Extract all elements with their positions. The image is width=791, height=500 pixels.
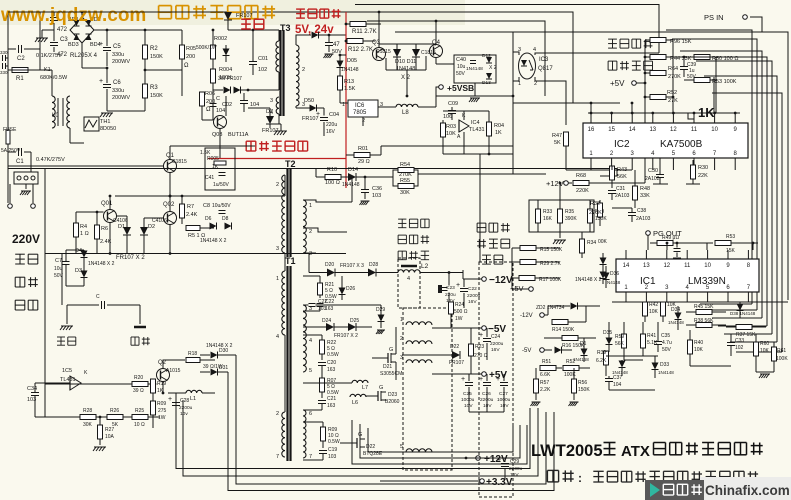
- svg-text:R7: R7: [187, 204, 194, 210]
- capacitor C22e: [460, 288, 468, 290]
- wire 1k: [688, 113, 694, 119]
- label zhiliu dianya CJK: [477, 223, 510, 232]
- choke winding 3: [406, 360, 432, 363]
- svg-text:R03: R03: [446, 124, 456, 130]
- svg-text:C31: C31: [616, 186, 625, 192]
- resistor R52b 100K: [563, 366, 579, 371]
- resistor R17 100K: [519, 276, 535, 281]
- wire R54 to right: [418, 173, 513, 175]
- wire bridge right to caps: [94, 29, 145, 31]
- terminal -5V: [482, 326, 487, 331]
- resistor R29 2.7K: [520, 260, 536, 265]
- svg-text:16: 16: [588, 127, 595, 133]
- svg-text:C40: C40: [456, 57, 466, 63]
- resistor R4 1 ohm: [74, 223, 79, 237]
- svg-text:5: 5: [309, 368, 312, 374]
- svg-text:D26: D26: [346, 286, 355, 292]
- diode D34b: [555, 347, 562, 354]
- svg-text:103: 103: [372, 193, 381, 199]
- wire IC1 bottom rail: [612, 301, 788, 303]
- resistor R39 6.2K: [604, 351, 609, 365]
- resistor R68 220K: [573, 181, 589, 186]
- svg-text:2: 2: [276, 411, 279, 417]
- svg-text:1W: 1W: [455, 316, 463, 322]
- svg-text:D14: D14: [348, 167, 358, 173]
- svg-text:+: +: [99, 78, 103, 85]
- capacitor C33 102: [727, 342, 735, 344]
- svg-text:Q817: Q817: [538, 66, 553, 72]
- svg-text:L1: L1: [190, 396, 196, 402]
- svg-text:R41: R41: [647, 333, 656, 339]
- svg-text:11: 11: [691, 127, 698, 133]
- diode D1: [123, 227, 131, 235]
- svg-text:R3: R3: [150, 85, 158, 91]
- wire r15 net: [511, 248, 513, 278]
- svg-text:Q2: Q2: [158, 360, 167, 366]
- wire rail y146: [381, 145, 513, 147]
- ground under T3: [275, 130, 287, 132]
- svg-text:R19: R19: [157, 381, 166, 387]
- wires optocoupler: [513, 52, 519, 55]
- svg-text:10K: 10K: [694, 347, 704, 353]
- svg-text:4.7u: 4.7u: [662, 340, 672, 346]
- diode secondary top: [312, 32, 319, 39]
- svg-text:R45 15K: R45 15K: [694, 304, 714, 310]
- svg-text:R20: R20: [134, 375, 143, 381]
- svg-text:16V: 16V: [326, 129, 336, 135]
- inductor L7: [352, 380, 368, 383]
- wire wrap 2: [360, 424, 520, 458]
- svg-text:R56: R56: [578, 380, 587, 386]
- svg-text:C04: C04: [329, 112, 339, 118]
- svg-text:2: 2: [309, 229, 312, 235]
- wire to bridge: [54, 11, 82, 13]
- diodes 1N4148 x2 right: [600, 258, 607, 265]
- wire +12V rail: [513, 173, 546, 175]
- svg-text:R27: R27: [105, 427, 114, 433]
- svg-text:56K: 56K: [615, 341, 625, 347]
- svg-text:33K: 33K: [640, 193, 650, 199]
- capacitor pg: [674, 248, 681, 250]
- svg-text:C22: C22: [468, 286, 477, 292]
- svg-text:R42: R42: [649, 302, 658, 308]
- transistor Q03 BUT11A: [214, 116, 227, 129]
- svg-text:C2: C2: [17, 56, 25, 62]
- svg-text:G: G: [389, 347, 393, 353]
- dashed box DC output: [479, 262, 513, 497]
- capacitor C02 104: [240, 100, 248, 102]
- resistor R58 10K: [661, 302, 666, 316]
- wire bundle 2: [183, 400, 538, 476]
- svg-text:D33: D33: [660, 362, 669, 368]
- svg-text:FR107 X 3: FR107 X 3: [340, 263, 364, 269]
- wire right bus: [666, 30, 752, 304]
- capacitor C24 2200u: [483, 338, 491, 340]
- svg-text:D3: D3: [75, 268, 82, 274]
- svg-text:T2: T2: [285, 159, 296, 169]
- terminal +5VSB: [439, 85, 444, 90]
- svg-text:2: 2: [400, 336, 403, 342]
- svg-text:PS IN: PS IN: [704, 13, 724, 22]
- resistor R12 2.7K: [347, 39, 363, 44]
- svg-text:2.4K: 2.4K: [186, 212, 198, 218]
- svg-text:Q02: Q02: [163, 202, 175, 208]
- capacitor C1: [18, 148, 20, 156]
- svg-text:10v: 10v: [180, 411, 188, 417]
- svg-text:0.5W: 0.5W: [328, 439, 340, 445]
- wire network rails: [606, 355, 658, 357]
- terminal +12V: [476, 456, 481, 461]
- diode D33: [652, 363, 659, 370]
- svg-text:RL205: RL205: [70, 53, 88, 59]
- diode ZD2 1N4734: [571, 303, 578, 310]
- resistor R06 200: [200, 92, 205, 106]
- capacitor C23: [441, 287, 448, 289]
- svg-text:D6: D6: [205, 216, 212, 222]
- wire right stack down: [715, 80, 717, 113]
- resistor R004 100K: [211, 69, 216, 83]
- svg-text:15: 15: [608, 127, 615, 133]
- IC1 LM339N: [616, 259, 759, 292]
- capacitor 47u 50V: [325, 42, 333, 44]
- capacitor C28 2200u: [172, 402, 180, 404]
- diode D35: [606, 338, 613, 345]
- resistor R44 33K: [650, 55, 666, 60]
- label wenya shuchu CJK: [608, 61, 652, 70]
- svg-text:+: +: [496, 376, 500, 383]
- dashed box output chokes: [403, 308, 452, 470]
- optocoupler IC3 Q817: [519, 53, 536, 79]
- svg-text:R33: R33: [543, 209, 552, 215]
- svg-text:50V: 50V: [662, 347, 672, 353]
- svg-text:+: +: [479, 332, 483, 339]
- capacitor tiny 1: [2, 55, 4, 61]
- svg-text:T1: T1: [285, 256, 296, 266]
- svg-text:10: 10: [704, 263, 711, 269]
- svg-text:10: 10: [711, 127, 718, 133]
- resistor R34: [580, 239, 585, 253]
- resistor R09 10ohm: [321, 427, 326, 441]
- transformer T1 core: [286, 266, 288, 461]
- svg-text:R06: R06: [205, 91, 215, 97]
- wire bundle 4: [228, 408, 554, 491]
- resistor R50 100: [694, 55, 710, 60]
- svg-text:FR107 X 2: FR107 X 2: [334, 333, 358, 339]
- svg-text:D12: D12: [482, 53, 491, 59]
- svg-text:D22: D22: [450, 344, 459, 350]
- svg-text:3W FR107: 3W FR107: [218, 76, 242, 82]
- diode ZD9: [619, 361, 626, 368]
- svg-text:680K/0.5W: 680K/0.5W: [40, 75, 68, 81]
- svg-text:+: +: [316, 111, 320, 118]
- resistor R28 30K: [80, 415, 96, 420]
- T1 primary winding lower: [282, 412, 285, 457]
- svg-text:1K: 1K: [698, 105, 715, 120]
- svg-text:www.jqdzw.com: www.jqdzw.com: [0, 5, 146, 26]
- resistor R7 2.4K: [180, 204, 185, 218]
- svg-text:12: 12: [663, 263, 670, 269]
- wire rail into IC2: [600, 169, 617, 177]
- svg-text:2: 2: [276, 182, 279, 188]
- diodes D10 D11 1N4148: [393, 49, 401, 57]
- svg-text:1N4148: 1N4148: [466, 66, 483, 72]
- svg-text:30K: 30K: [83, 422, 93, 428]
- svg-text:2A102: 2A102: [645, 176, 660, 182]
- svg-text:D30: D30: [219, 348, 228, 354]
- svg-text:R26: R26: [110, 408, 119, 414]
- svg-text:56K: 56K: [617, 174, 627, 180]
- svg-text:220V: 220V: [12, 232, 40, 246]
- capacitor C31 2A103: [608, 190, 616, 192]
- svg-text:R13: R13: [344, 79, 354, 85]
- resistor R01 29ohm: [354, 153, 370, 158]
- svg-text:10V: 10V: [483, 403, 492, 409]
- resistor R05 200: [180, 45, 185, 59]
- svg-text:Ω: Ω: [206, 107, 211, 113]
- diodes D6 D8: [210, 223, 217, 230]
- svg-text:270K: 270K: [589, 210, 602, 216]
- wire right bus bottoms: [700, 303, 752, 305]
- label fudianyuan red: [246, 141, 307, 151]
- svg-text:5.1K: 5.1K: [647, 340, 658, 346]
- resistor R53b 15K: [715, 241, 731, 246]
- svg-text:R34: R34: [587, 240, 596, 246]
- wire secondary top: [296, 35, 311, 45]
- wire wrap 1: [352, 420, 527, 464]
- diode D50 FR107: [310, 105, 317, 112]
- svg-text:2200u: 2200u: [179, 405, 193, 411]
- resistor R1 680K: [12, 68, 28, 73]
- diode D22 FR107: [452, 351, 460, 359]
- wire PS-ON routing: [395, 17, 762, 32]
- svg-text:8D050: 8D050: [100, 126, 116, 132]
- svg-text:39 Ω: 39 Ω: [133, 388, 144, 394]
- svg-text:D2: D2: [148, 224, 155, 230]
- svg-text:1: 1: [518, 81, 521, 87]
- svg-text:4: 4: [309, 338, 312, 344]
- resistor R57 2.2K: [534, 379, 539, 393]
- IC4 TL431: [459, 120, 469, 132]
- svg-text:X 2: X 2: [489, 65, 497, 71]
- capacitor C6 330u: [103, 84, 111, 86]
- wire second left: [61, 254, 63, 306]
- svg-text:150K: 150K: [150, 54, 163, 60]
- svg-text:150K: 150K: [578, 387, 590, 393]
- resistor R04 1K: [487, 122, 492, 136]
- inductor L6: [350, 394, 366, 397]
- ground: [36, 37, 48, 39]
- svg-text:C6: C6: [113, 80, 121, 86]
- svg-text:D10 D11: D10 D11: [395, 59, 416, 65]
- wire drive collectors: [115, 195, 285, 197]
- svg-text:D25: D25: [350, 318, 359, 324]
- transistor Q4 C1815: [430, 45, 443, 58]
- diode FR107: [224, 12, 232, 20]
- svg-text:200: 200: [206, 99, 215, 105]
- svg-text:C09: C09: [448, 101, 458, 107]
- ground box: [559, 232, 561, 238]
- svg-text:C24: C24: [491, 334, 500, 340]
- resistor R2 150K: [143, 45, 148, 59]
- svg-text:R35: R35: [565, 209, 574, 215]
- svg-text:TL431: TL431: [60, 377, 76, 383]
- label diyaciji red: [296, 9, 340, 18]
- svg-text:14: 14: [623, 263, 630, 269]
- capacitor C21 163: [318, 400, 326, 402]
- svg-text:15K: 15K: [726, 248, 736, 254]
- svg-text:150K: 150K: [150, 93, 163, 99]
- svg-text:R23: R23: [475, 344, 484, 350]
- svg-text:X 4: X 4: [88, 53, 98, 59]
- svg-text:10K: 10K: [446, 131, 456, 137]
- wires drive: [396, 44, 398, 49]
- svg-text:R4: R4: [80, 224, 87, 230]
- svg-text:1N4148: 1N4148: [658, 370, 674, 375]
- svg-text:4: 4: [276, 334, 279, 340]
- svg-text:330: 330: [0, 50, 8, 55]
- resistor R3 150K: [143, 84, 148, 98]
- svg-text:+3.3V: +3.3V: [486, 477, 513, 488]
- svg-text:D36: D36: [610, 271, 619, 277]
- resistor R59 56K: [622, 334, 627, 348]
- svg-text:C41: C41: [205, 175, 214, 181]
- svg-text:R54: R54: [400, 162, 410, 168]
- IC2 KA7500B: [583, 123, 748, 158]
- svg-text:C34: C34: [27, 386, 37, 392]
- svg-text:C1: C1: [16, 159, 24, 165]
- T1 secondary upper: [303, 305, 306, 372]
- snubber block R005: [205, 148, 235, 190]
- transformer T3 core: [279, 30, 281, 116]
- diode D14 1N4148: [348, 173, 356, 181]
- resistor R33 16K: [536, 209, 541, 223]
- T1 secondary lower: [303, 410, 306, 458]
- svg-text:275: 275: [158, 408, 167, 414]
- diode D34: [675, 313, 682, 320]
- wire left loop: [44, 169, 46, 254]
- wire cross link: [145, 69, 182, 71]
- svg-text:104: 104: [250, 102, 259, 108]
- svg-text:10u: 10u: [54, 266, 63, 272]
- svg-text:2: 2: [362, 118, 365, 124]
- svg-text:C38: C38: [637, 208, 646, 214]
- svg-text:D22: D22: [366, 444, 375, 450]
- svg-text:500K/1W: 500K/1W: [196, 45, 217, 51]
- fuse FUSE: [6, 130, 10, 144]
- terminal -12V: [482, 277, 487, 282]
- svg-text:22K: 22K: [698, 173, 708, 179]
- wire red horizontal: [208, 158, 346, 160]
- svg-text:D8: D8: [222, 216, 229, 222]
- svg-text:L0: L0: [52, 113, 59, 119]
- resistor R11 2.7K: [350, 22, 366, 27]
- resistor R60 10K: [754, 342, 759, 356]
- svg-text:11: 11: [684, 263, 691, 269]
- svg-text:R59: R59: [615, 334, 624, 340]
- svg-text:R09: R09: [157, 401, 166, 407]
- terminal +5V: [482, 372, 487, 377]
- resistor R43 56K: [610, 166, 615, 180]
- resistor R14 150K: [552, 320, 568, 325]
- svg-text:D1: D1: [580, 341, 587, 347]
- svg-text:X 2: X 2: [401, 75, 411, 81]
- svg-text:13: 13: [649, 127, 656, 133]
- watermark jinqiao CJK: [159, 6, 276, 19]
- capacitor C36 103: [361, 189, 369, 191]
- resistor R13 1.5K: [338, 76, 343, 90]
- svg-text:103: 103: [318, 306, 327, 312]
- wire L2 row: [376, 272, 398, 274]
- svg-text:3: 3: [276, 246, 279, 252]
- svg-text:D38 1N4148: D38 1N4148: [730, 311, 756, 316]
- diode D05 1N4148: [337, 61, 344, 68]
- wire PG OUT: [646, 231, 651, 236]
- resistor R40 10K: [688, 340, 693, 354]
- capacitors C25 C26 C27: [465, 382, 473, 384]
- diode D25: [348, 323, 356, 331]
- svg-text:Chinafix.com: Chinafix.com: [705, 483, 790, 498]
- wire pg riser: [647, 235, 649, 250]
- svg-text:L8: L8: [402, 110, 409, 116]
- transistor Q01 C4106: [104, 210, 117, 223]
- T2 secondary winding: [303, 200, 306, 253]
- svg-text:TH1: TH1: [100, 119, 110, 125]
- diode D20: [327, 269, 335, 277]
- svg-text:Q01: Q01: [101, 201, 113, 207]
- svg-text:C1815: C1815: [172, 159, 187, 165]
- svg-text:16V: 16V: [468, 299, 477, 305]
- svg-text:2: 2: [302, 67, 305, 73]
- svg-text:102: 102: [735, 345, 744, 351]
- diode D2: [140, 227, 148, 235]
- svg-text:390K: 390K: [565, 216, 577, 222]
- svg-text:R61: R61: [777, 348, 786, 354]
- svg-text:R004: R004: [219, 67, 232, 73]
- svg-text:D50: D50: [304, 98, 314, 104]
- svg-text:+: +: [461, 376, 465, 383]
- svg-text:BD3: BD3: [68, 42, 79, 48]
- svg-text:-12V: -12V: [520, 313, 533, 319]
- svg-text::: :: [578, 471, 582, 485]
- capacitor hot-cold ground: [101, 301, 103, 309]
- capacitor C04 220u: [320, 117, 328, 119]
- svg-text:220u: 220u: [326, 122, 337, 128]
- svg-text:R32: R32: [590, 201, 600, 207]
- svg-text:C21: C21: [327, 396, 336, 402]
- T3 secondary winding: [296, 45, 299, 106]
- svg-text:10K: 10K: [760, 348, 770, 354]
- svg-text:330: 330: [0, 70, 8, 75]
- svg-text:5A/250V: 5A/250V: [1, 148, 21, 154]
- svg-text:R40: R40: [694, 340, 703, 346]
- terminal AC N: [32, 184, 34, 203]
- capacitor C7 10u: [63, 261, 70, 263]
- T2 primary winding: [282, 175, 285, 253]
- mosfet D21 S3055CM: [387, 353, 389, 363]
- svg-text:R10: R10: [327, 167, 337, 173]
- svg-text:7: 7: [276, 454, 279, 460]
- resistor R03 10K: [441, 123, 446, 137]
- svg-text:D23: D23: [388, 392, 397, 398]
- resistor R25 10ohm: [132, 415, 148, 420]
- svg-text:R14 150K: R14 150K: [552, 327, 575, 333]
- ground cold: [139, 305, 141, 324]
- svg-text:103: 103: [328, 454, 337, 460]
- resistor R8: [186, 226, 200, 231]
- svg-text:-5V: -5V: [522, 348, 531, 354]
- svg-text:R11 2.7K: R11 2.7K: [352, 29, 377, 35]
- svg-text:220K: 220K: [576, 188, 589, 194]
